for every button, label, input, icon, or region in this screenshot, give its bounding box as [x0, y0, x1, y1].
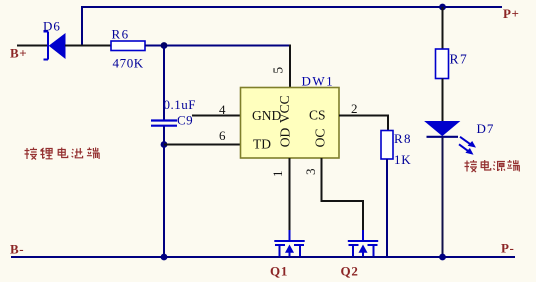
svg-text:Q2: Q2: [341, 264, 359, 279]
label Chinese text: 接电源端 (power terminal side): [465, 160, 520, 172]
svg-text:3: 3: [303, 169, 318, 176]
svg-text:D6: D6: [43, 19, 61, 34]
wire: left vertical from top rail down to B+ line: [81, 6, 83, 47]
transistor Q1 (N-MOSFET): [274, 230, 304, 257]
LED D7 (triangle down with cathode bar): [426, 122, 460, 137]
svg-text:1: 1: [270, 171, 285, 178]
svg-text:CS: CS: [309, 108, 326, 123]
capacitor C9 plates: [151, 121, 177, 126]
wire: pin 5 vertical drop to DW1: [289, 45, 291, 89]
svg-text:OD: OD: [278, 128, 293, 148]
wire: bottom rail B- to P-: [11, 256, 515, 258]
wire: pin 4 GND wire to DW1: [192, 115, 241, 117]
wire: below D7 down to bottom rail: [442, 138, 444, 259]
svg-text:R6: R6: [112, 27, 130, 42]
svg-text:P-: P-: [501, 241, 514, 256]
wire: R6 to pin5 corner, through node at x=164: [145, 45, 291, 47]
wire: pin 3 OC stepped wire to Q2 gate: [322, 158, 364, 241]
svg-text:R8: R8: [394, 131, 412, 146]
wire: diode D6 to resistor R6: [65, 45, 111, 47]
resistor R7: [436, 49, 449, 79]
svg-text:B+: B+: [10, 46, 27, 61]
svg-text:470K: 470K: [113, 56, 144, 71]
wire: top rail P+ net: [82, 6, 502, 8]
wire: B+ to diode D6: [17, 45, 48, 47]
svg-text:1K: 1K: [394, 152, 412, 167]
wire: R7 branch vertical from top rail dot to R7: [442, 7, 444, 49]
node: junction dot C9 branch / TD pin 6 wire: [161, 141, 168, 148]
transistor Q2 (N-MOSFET): [348, 230, 378, 257]
wire: pin 1 OD vertical to Q1 gate: [289, 158, 291, 241]
svg-text:C9: C9: [177, 113, 193, 128]
LED D7 emission arrows: [459, 137, 476, 155]
wire: R7 to LED D7: [442, 79, 444, 122]
svg-text:VCC: VCC: [277, 95, 292, 123]
svg-text:B-: B-: [10, 242, 24, 257]
resistor R6: [111, 41, 145, 51]
wire: below C9 down to bottom rail: [163, 127, 165, 259]
svg-text:6: 6: [219, 128, 226, 143]
wire: pin 2 CS wire from DW1 to R8 branch: [339, 116, 388, 132]
label Chinese text: 接锂电池端 (battery terminal side): [25, 148, 100, 160]
svg-text:TD: TD: [253, 137, 271, 152]
svg-text:Q1: Q1: [270, 264, 288, 279]
node: junction dot R6 output / C9 branch: [161, 42, 168, 49]
node: junction dot bottom rail / LED branch: [439, 254, 446, 261]
node: junction dot top rail to R7 branch: [439, 4, 446, 11]
diode D6 (zener, cathode bar with hooks, blue triangle pointing left): [44, 32, 66, 60]
resistor R8: [381, 131, 393, 160]
svg-text:2: 2: [351, 101, 358, 116]
wire: vertical from node down to capacitor C9 top plate: [163, 46, 165, 120]
wire: pin 6 TD wire from C9 node to DW1: [164, 144, 241, 146]
svg-text:5: 5: [271, 67, 286, 74]
svg-text:D7: D7: [477, 121, 495, 136]
svg-text:R7: R7: [450, 52, 469, 67]
svg-text:DW1: DW1: [302, 74, 335, 89]
svg-text:0.1uF: 0.1uF: [164, 97, 196, 112]
svg-text:OC: OC: [313, 129, 328, 148]
svg-text:P+: P+: [503, 6, 520, 21]
node: junction dot bottom rail / C9 branch: [161, 254, 168, 261]
op-amp U1: protection IC DW1 body: [241, 88, 340, 159]
svg-text:4: 4: [219, 102, 226, 117]
wire: below R8 down to bottom rail: [386, 159, 388, 258]
